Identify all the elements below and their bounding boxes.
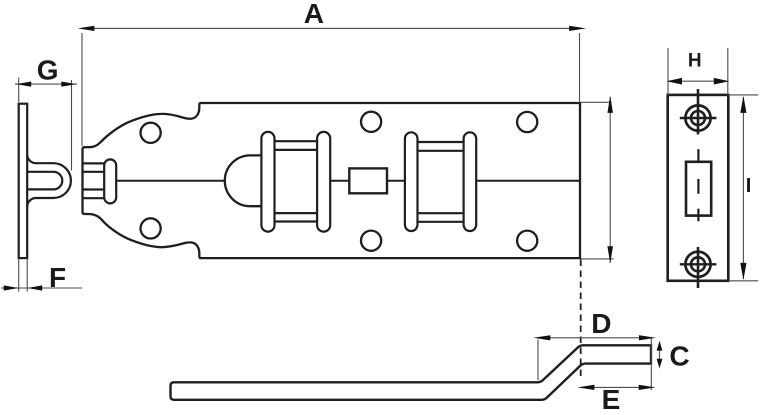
dimension A (78, 0, 586, 146)
svg-text:D: D (591, 308, 611, 339)
staple guide 1 (261, 132, 330, 232)
svg-text:G: G (37, 55, 59, 86)
svg-text:H: H (688, 50, 702, 71)
dimension C (657, 341, 690, 372)
plate height dimension (unlabeled) (581, 96, 614, 263)
dimension E (578, 384, 656, 415)
staple guide 2 (405, 132, 476, 231)
svg-text:E: E (602, 384, 621, 415)
main plate outline (83, 103, 581, 258)
strike plate outline (668, 95, 729, 281)
dimension I (728, 95, 758, 281)
screw holes on plate (141, 112, 538, 251)
bolt head cap (104, 159, 116, 203)
bolt axis line (116, 180, 580, 182)
keeper staple loop (27, 155, 71, 207)
bolt head ribs (83, 163, 105, 198)
bolt nose (225, 155, 262, 206)
keeper plate (side view, left) (19, 104, 28, 258)
dimension F (1, 258, 82, 293)
dimension G (15, 55, 77, 171)
strike plate bottom screw hole (680, 247, 717, 288)
dimension H (667, 48, 730, 95)
bolt bar side view (171, 345, 652, 400)
svg-text:A: A (304, 0, 324, 29)
strike plate top screw hole (680, 89, 717, 135)
dimension D (533, 308, 656, 390)
svg-text:I: I (746, 175, 752, 197)
projection dashed line (580, 260, 582, 377)
handle knob (349, 168, 387, 193)
svg-text:C: C (669, 341, 689, 372)
svg-text:F: F (49, 262, 66, 293)
strike plate slot (686, 149, 711, 221)
